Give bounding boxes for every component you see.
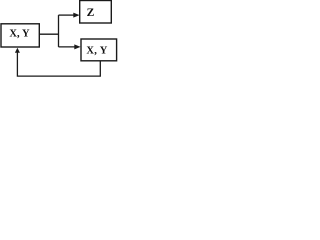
box B "X, Y" (middle-right state box) (81, 39, 117, 61)
svg-text:X, Y: X, Y (9, 29, 30, 40)
wire to box B (59, 46, 75, 48)
wire from box A right edge to junction (39, 33, 58, 35)
svg-text:X, Y: X, Y (86, 46, 107, 57)
box Z (top-right state box) (80, 1, 112, 24)
arrowhead into box A bottom (15, 48, 20, 53)
arrowhead into box Z (73, 13, 79, 18)
feedback wire from box B bottom down, left, and up toward box A bottom (17, 52, 100, 76)
arrowhead into box B (74, 44, 80, 49)
box A "X, Y" (top-left state box) (1, 24, 39, 47)
svg-text:Z: Z (87, 7, 95, 19)
wire vertical junction segment (58, 15, 60, 47)
wire to box Z (59, 14, 74, 16)
